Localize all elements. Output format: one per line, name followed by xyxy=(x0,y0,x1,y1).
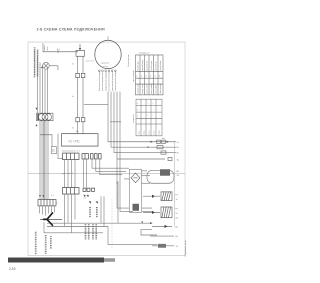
svg-text:Нч: Нч xyxy=(177,153,179,155)
svg-text:2к: 2к xyxy=(176,213,178,215)
svg-text:Кл: Кл xyxy=(72,64,74,66)
svg-text:желтый цв: желтый цв xyxy=(155,62,158,71)
svg-text:скорость: скорость xyxy=(133,114,135,123)
svg-text:1 2 3 4: 1 2 3 4 xyxy=(51,243,53,250)
svg-text:<С > ПС: <С > ПС xyxy=(68,139,80,143)
svg-text:красный провод низк: красный провод низк xyxy=(101,72,104,91)
svg-text:мотор: мотор xyxy=(103,66,108,68)
svg-text:Кл: Кл xyxy=(72,127,74,129)
svg-text:лев вкл реле в с н о: лев вкл реле в с н о xyxy=(62,150,80,152)
svg-text:Мт: Мт xyxy=(177,171,180,173)
svg-text:вкл режим: вкл режим xyxy=(156,84,158,94)
svg-text:красный цв: красный цв xyxy=(146,61,149,71)
svg-text:Охранное устр: Охранное устр xyxy=(185,240,187,257)
svg-text:серый черный провод: серый черный провод xyxy=(114,70,117,91)
svg-text:низк: низк xyxy=(139,131,141,135)
svg-text:выкл режим: выкл режим xyxy=(151,83,153,94)
svg-text:0 1: 0 1 xyxy=(57,49,60,51)
svg-text:6: 6 xyxy=(159,76,160,78)
svg-text:синий белый средний: синий белый средний xyxy=(104,72,107,91)
svg-text:средн скор: средн скор xyxy=(142,85,144,94)
svg-text:Шнур запуска при: Шнур запуска при xyxy=(45,234,48,256)
svg-text:общ провод: общ провод xyxy=(160,84,162,94)
svg-text:синий пров: синий пров xyxy=(150,61,153,70)
svg-text:1к: 1к xyxy=(176,199,178,201)
svg-text:черный пров: черный пров xyxy=(141,60,144,71)
svg-text:выкл: выкл xyxy=(154,131,156,135)
svg-text:Сч: Сч xyxy=(177,142,179,144)
svg-text:в: в xyxy=(137,109,138,111)
svg-text:белый черный провод: белый черный провод xyxy=(98,70,101,91)
svg-text:Кл: Кл xyxy=(72,96,74,98)
svg-text:1: 1 xyxy=(137,76,138,78)
svg-text:рез: рез xyxy=(162,138,165,140)
svg-text:оранжевый провод вы: оранжевый провод вы xyxy=(111,70,114,91)
svg-text:день али 2 2: день али 2 2 xyxy=(62,173,73,175)
svg-text:Углов датчик: Углов датчик xyxy=(128,54,130,66)
svg-text:серый пров: серый пров xyxy=(159,61,162,71)
svg-text:низкая скор: низкая скор xyxy=(138,84,140,94)
svg-text:желтый зеленый пров: желтый зеленый пров xyxy=(108,71,111,91)
svg-text:5: 5 xyxy=(155,76,156,78)
svg-text:Сетевой шнур пит: Сетевой шнур пит xyxy=(35,233,38,256)
svg-text:Вч: Вч xyxy=(177,147,179,149)
svg-text:3: 3 xyxy=(146,76,147,78)
svg-text:н: н xyxy=(137,115,138,117)
svg-text:общи: общи xyxy=(159,130,161,135)
svg-text:Таблица кл: Таблица кл xyxy=(139,52,150,54)
svg-text:реле вент: реле вент xyxy=(86,60,94,62)
svg-text:П: П xyxy=(52,149,54,153)
svg-text:Дт: Дт xyxy=(176,226,178,228)
svg-text:2-19: 2-19 xyxy=(9,267,16,271)
svg-text:высо: высо xyxy=(149,131,151,135)
svg-text:цвет провода: цвет провода xyxy=(133,71,135,82)
svg-text:сред: сред xyxy=(144,131,146,135)
svg-text:2-8 СХЕМА СХЕМА ПОДКЛЮЧЕНИЯ: 2-8 СХЕМА СХЕМА ПОДКЛЮЧЕНИЯ xyxy=(37,27,105,31)
svg-text:Еч: Еч xyxy=(76,131,78,133)
svg-text:сеть: сеть xyxy=(47,47,49,51)
svg-text:высок скор: высок скор xyxy=(147,85,149,94)
svg-text:крыльчат: крыльчат xyxy=(101,63,110,65)
svg-text:к: к xyxy=(137,103,138,105)
svg-text:подкл: подкл xyxy=(44,44,46,50)
svg-text:2: 2 xyxy=(141,76,142,78)
svg-text:белый цвет: белый цвет xyxy=(137,61,140,71)
svg-text:4: 4 xyxy=(150,76,151,78)
